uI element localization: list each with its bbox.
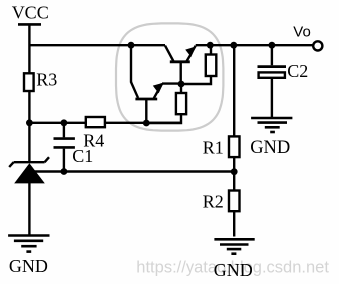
capacitor C2 (electrolytic) (258, 45, 309, 118)
svg-text:R2: R2 (203, 192, 224, 212)
svg-text:GND: GND (214, 260, 253, 280)
svg-text:R3: R3 (36, 70, 57, 90)
resistor R2 (203, 191, 240, 212)
node: rail junction at C2 (269, 42, 276, 49)
node: junction at Q2 base (143, 120, 150, 127)
resistor Ra (upper, in outline) (181, 45, 216, 84)
svg-text:R1: R1 (203, 137, 224, 157)
wire: R1/R2 divider vertical (233, 45, 235, 236)
component-group outline (gray rounded box) (116, 23, 223, 130)
wire: main left vertical (VCC to zener) (28, 24, 30, 162)
node: rail junction at Ra (207, 42, 214, 49)
transistor Q1 (upper, in outline) (165, 46, 196, 84)
resistor Rb (lower, in outline) (146, 84, 186, 123)
node: Q1 base junction (178, 81, 185, 88)
wire: top rail left segment (29, 44, 165, 46)
node: junction C1 bottom (61, 168, 68, 175)
wire: Q2 collector vertical (130, 45, 132, 82)
zener diode D1 (9, 157, 49, 236)
node: junction on top rail (Q2 collector) (128, 42, 135, 49)
svg-text:Vo: Vo (293, 24, 311, 41)
svg-text:C1: C1 (72, 146, 93, 166)
svg-text:GND: GND (250, 138, 290, 158)
svg-text:VCC: VCC (12, 3, 49, 23)
node: rail junction at R1 chain (230, 42, 237, 49)
node: junction under R3 (26, 119, 33, 126)
resistor R4 (83, 117, 105, 150)
transistor Q2 (lower, in outline) (131, 82, 179, 123)
svg-text:C2: C2 (287, 61, 308, 81)
ground (left, zener) (8, 236, 49, 276)
wire: top rail right segment (emitter to Vo) (196, 44, 313, 46)
svg-text:GND: GND (9, 256, 48, 276)
wire: zener node horizontal (to R1/R2 divider) (29, 170, 234, 172)
resistor R1 (203, 136, 240, 157)
wire: base bias line y=123 (29, 122, 181, 124)
node: divider midpoint (231, 168, 238, 175)
ground (middle, R2) (214, 239, 255, 280)
ground (right, C2) (250, 118, 292, 158)
VCC terminal bar (18, 23, 41, 26)
node: junction at C1 top (61, 119, 68, 126)
capacitor C1 (54, 123, 94, 172)
output terminal Vo (293, 24, 322, 51)
resistor R3 (24, 70, 57, 91)
